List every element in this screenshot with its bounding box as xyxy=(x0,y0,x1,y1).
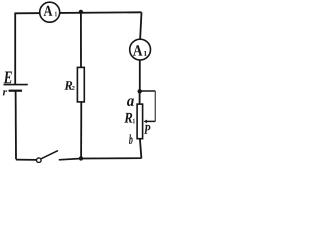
label P xyxy=(144,125,150,134)
ammeter A1 letter A xyxy=(44,6,53,16)
wire tap dot to R1 top xyxy=(139,91,141,104)
ammeter A2 circle xyxy=(130,39,151,60)
wire top horizontal xyxy=(15,12,141,13)
label R1 subscript 1 xyxy=(133,119,135,123)
label b xyxy=(129,134,133,144)
label r xyxy=(3,90,7,95)
wire middle branch lower R2 bottom lead xyxy=(80,102,82,159)
wire bottom middle and right segment xyxy=(59,158,142,160)
wire right below R1 b lead xyxy=(140,139,142,159)
battery long plate xyxy=(4,84,28,86)
label R2 letter R xyxy=(64,81,72,90)
wire right vertical upper to A2 xyxy=(140,12,141,39)
resistor R2 body xyxy=(77,67,84,102)
label R1 letter R xyxy=(124,113,132,123)
wire left vertical lower xyxy=(15,91,17,160)
label R2 subscript 2 xyxy=(72,86,75,90)
slider arrowhead xyxy=(144,120,147,124)
wire right between A2 bottom and tap dot xyxy=(139,60,141,92)
ammeter A1 subscript 1 xyxy=(55,12,57,17)
ammeter A2 subscript 2 xyxy=(144,51,147,56)
label E xyxy=(4,72,12,84)
switch contact circle xyxy=(37,158,42,163)
label a xyxy=(127,98,134,106)
battery short thick plate xyxy=(9,90,22,92)
ammeter A2 letter A xyxy=(133,45,142,55)
rheostat R1 body xyxy=(137,104,143,139)
wire slider branch right vertical (faint) xyxy=(154,91,156,121)
junction node bottom of R2 branch xyxy=(79,156,83,160)
wire slider branch top horizontal xyxy=(140,90,156,92)
switch lever xyxy=(41,151,58,159)
wire left vertical upper xyxy=(14,13,16,85)
junction node top of R2 branch xyxy=(79,10,83,14)
ammeter A1 circle xyxy=(40,2,60,22)
wire bottom left segment to switch xyxy=(16,159,37,161)
wire slider arrow tail xyxy=(146,120,155,122)
junction node slider tap xyxy=(138,89,142,93)
wire middle branch upper R2 top lead xyxy=(80,12,82,67)
